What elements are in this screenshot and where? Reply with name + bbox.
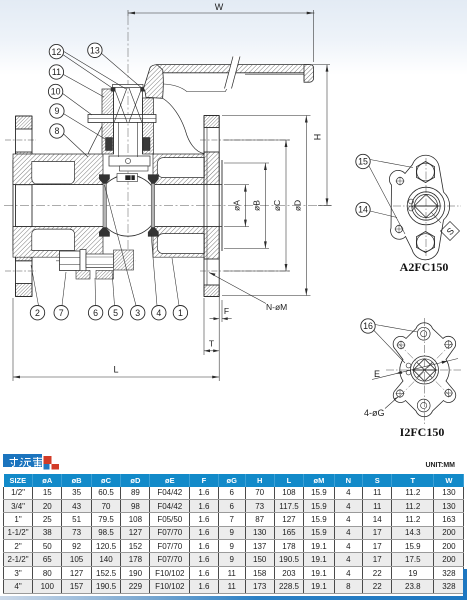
drain plug centerline (56, 260, 136, 262)
stem square (413, 359, 435, 381)
left flange raised face line (12, 160, 14, 251)
handle inner edge line (163, 84, 227, 92)
svg-text:7: 7 (59, 308, 64, 318)
svg-text:S: S (445, 226, 456, 237)
svg-text:N-øM: N-øM (266, 302, 287, 312)
detent holes (406, 363, 411, 368)
plate hole top-left (396, 177, 403, 184)
gland plate (88, 115, 156, 123)
right flange outline (203, 116, 205, 297)
detent holes (409, 199, 414, 204)
stem square (414, 194, 437, 217)
L dimension (13, 298, 219, 381)
seat seal bottom-left (99, 227, 110, 236)
svg-text:16: 16 (363, 321, 373, 331)
bonnet neck profile right (163, 99, 204, 154)
svg-text:E: E (374, 369, 380, 379)
callout 13 (88, 43, 102, 57)
left flange hatched mass (plate below/above bolt holes) (16, 152, 33, 261)
svg-text:F: F (224, 306, 229, 316)
callout 15 (370, 160, 413, 168)
svg-text:5: 5 (113, 308, 118, 318)
øB dimension (224, 163, 269, 248)
right flange bolt hole centerline (øC extension) (200, 139, 290, 141)
callout 4 (152, 306, 166, 320)
bottom boss (417, 399, 430, 412)
W dimension (128, 10, 315, 62)
ball top arc (104, 175, 152, 186)
left flange bottom cap (16, 284, 33, 297)
svg-text:øA: øA (232, 200, 242, 211)
central boss (411, 356, 439, 384)
callout 1 (173, 306, 187, 320)
body cavity pocket bottom-right (157, 234, 204, 254)
drain plug washer (80, 250, 86, 273)
stem spring (disc stack) (114, 88, 142, 122)
svg-text:8: 8 (54, 126, 59, 136)
bolt hole top-right (445, 341, 452, 348)
stem slot line (413, 205, 440, 207)
svg-text:I2FC150: I2FC150 (400, 425, 445, 439)
svg-text:4: 4 (156, 308, 161, 318)
svg-text:6: 6 (93, 308, 98, 318)
handle break symbol (224, 56, 240, 89)
callout 3 (131, 306, 145, 320)
svg-text:A2FC150: A2FC150 (400, 260, 449, 274)
seat seal top-left (99, 174, 110, 183)
left flange bolt hole centerline (bottom) (5, 270, 36, 272)
øD dimension (222, 116, 311, 296)
svg-text:L: L (113, 365, 118, 375)
stem packing left (106, 138, 113, 151)
left flange bolt hole centerline (top) (5, 139, 36, 141)
drain boss hatch right (96, 271, 114, 280)
øA dimension (224, 185, 249, 227)
svg-text:9: 9 (54, 106, 59, 116)
neck pocket top-left (32, 162, 75, 184)
plate hole bottom-left (395, 225, 402, 232)
svg-text:15: 15 (358, 157, 368, 167)
F dimension (210, 297, 232, 323)
stem walls (113, 87, 115, 154)
top boss (417, 327, 430, 340)
T dimension (204, 298, 219, 355)
seat right (151, 178, 155, 229)
bolt hole top-left (397, 341, 404, 348)
callout 12 (49, 44, 63, 58)
callout 9 (50, 104, 64, 118)
seat left (103, 178, 107, 229)
drain plug hex head (60, 251, 81, 271)
left flange outline (15, 116, 17, 297)
bottom hex nut (416, 232, 434, 253)
stem packing right (143, 138, 150, 151)
gland o-ring left (111, 87, 116, 91)
view centerlines (393, 205, 461, 207)
bore lines (13, 184, 103, 186)
gland o-ring right (140, 87, 145, 91)
svg-text:1: 1 (178, 308, 183, 318)
body mass bottom-right (153, 227, 219, 259)
svg-text:øB: øB (252, 200, 262, 211)
ball bottom arc (104, 225, 152, 236)
body mass top-left (13, 154, 103, 185)
handle lever bar (157, 65, 309, 73)
stem top washer (113, 85, 144, 88)
svg-text:øC: øC (272, 200, 282, 211)
body mass top-right (153, 152, 219, 185)
callout 8 (50, 124, 64, 138)
dimension table label 寸法表 (drawn glyphs) (3, 454, 42, 467)
callout 2 (30, 306, 44, 320)
stem centerline (127, 16, 129, 252)
gland column left (102, 89, 114, 154)
bonnet neck profile left (88, 126, 102, 154)
callout 14 (370, 211, 397, 218)
central boss outer (407, 187, 445, 225)
right flange gasket face (221, 160, 223, 251)
top hex nut (416, 162, 434, 183)
svg-text:13: 13 (90, 46, 100, 56)
callout 7 (54, 306, 68, 320)
handle mount (bent section) (144, 65, 164, 99)
svg-text:øD: øD (293, 200, 303, 211)
svg-text:11: 11 (52, 67, 61, 77)
body cavity pocket top-right (157, 158, 204, 178)
view centerlines (386, 369, 461, 371)
pipe centerline (4, 204, 332, 206)
stem lower flange on ball (109, 156, 150, 166)
right flange top cap (204, 116, 219, 128)
plate outline (393, 323, 456, 417)
øC dimension (224, 140, 290, 271)
drain boss body extension (114, 250, 134, 270)
left flange top cap (16, 116, 33, 129)
mounting plate outline (389, 155, 449, 260)
svg-text:12: 12 (52, 47, 62, 57)
H dimension (304, 65, 331, 206)
svg-text:H: H (313, 134, 323, 141)
handle grip end (304, 65, 314, 83)
svg-text:T: T (209, 339, 214, 349)
gland column right (143, 98, 154, 154)
svg-text:10: 10 (51, 87, 61, 97)
svg-text:3: 3 (135, 308, 140, 318)
N-øM label and leader (209, 273, 266, 304)
right flange bottom cap (204, 285, 219, 297)
bolt hole bottom-right (445, 389, 452, 396)
central boss circle (412, 192, 440, 220)
drain plug shank (86, 254, 114, 268)
body mass bottom-left (13, 227, 103, 258)
drain boss hatch left (76, 271, 90, 280)
neck pocket bottom-left (drain hub region) (32, 229, 75, 250)
callout 5 (108, 306, 122, 320)
svg-text:14: 14 (358, 205, 368, 215)
seat seal top-right (148, 174, 159, 183)
callout 16 (375, 325, 418, 333)
svg-text:W: W (215, 2, 224, 12)
ball stem slot (117, 174, 138, 182)
callout 6 (88, 306, 102, 320)
E dimension line (372, 359, 458, 380)
bolt hole bottom-left (396, 390, 403, 397)
svg-text:4-øG: 4-øG (364, 408, 385, 418)
svg-text:2: 2 (35, 308, 40, 318)
callout 10 (48, 84, 62, 98)
callout leader lines (31, 51, 179, 306)
4-øG label (385, 397, 399, 409)
stem pin (125, 158, 130, 163)
seat seal bottom-right (148, 227, 159, 236)
S dimension diamond (441, 222, 460, 241)
callout 11 (49, 65, 63, 79)
